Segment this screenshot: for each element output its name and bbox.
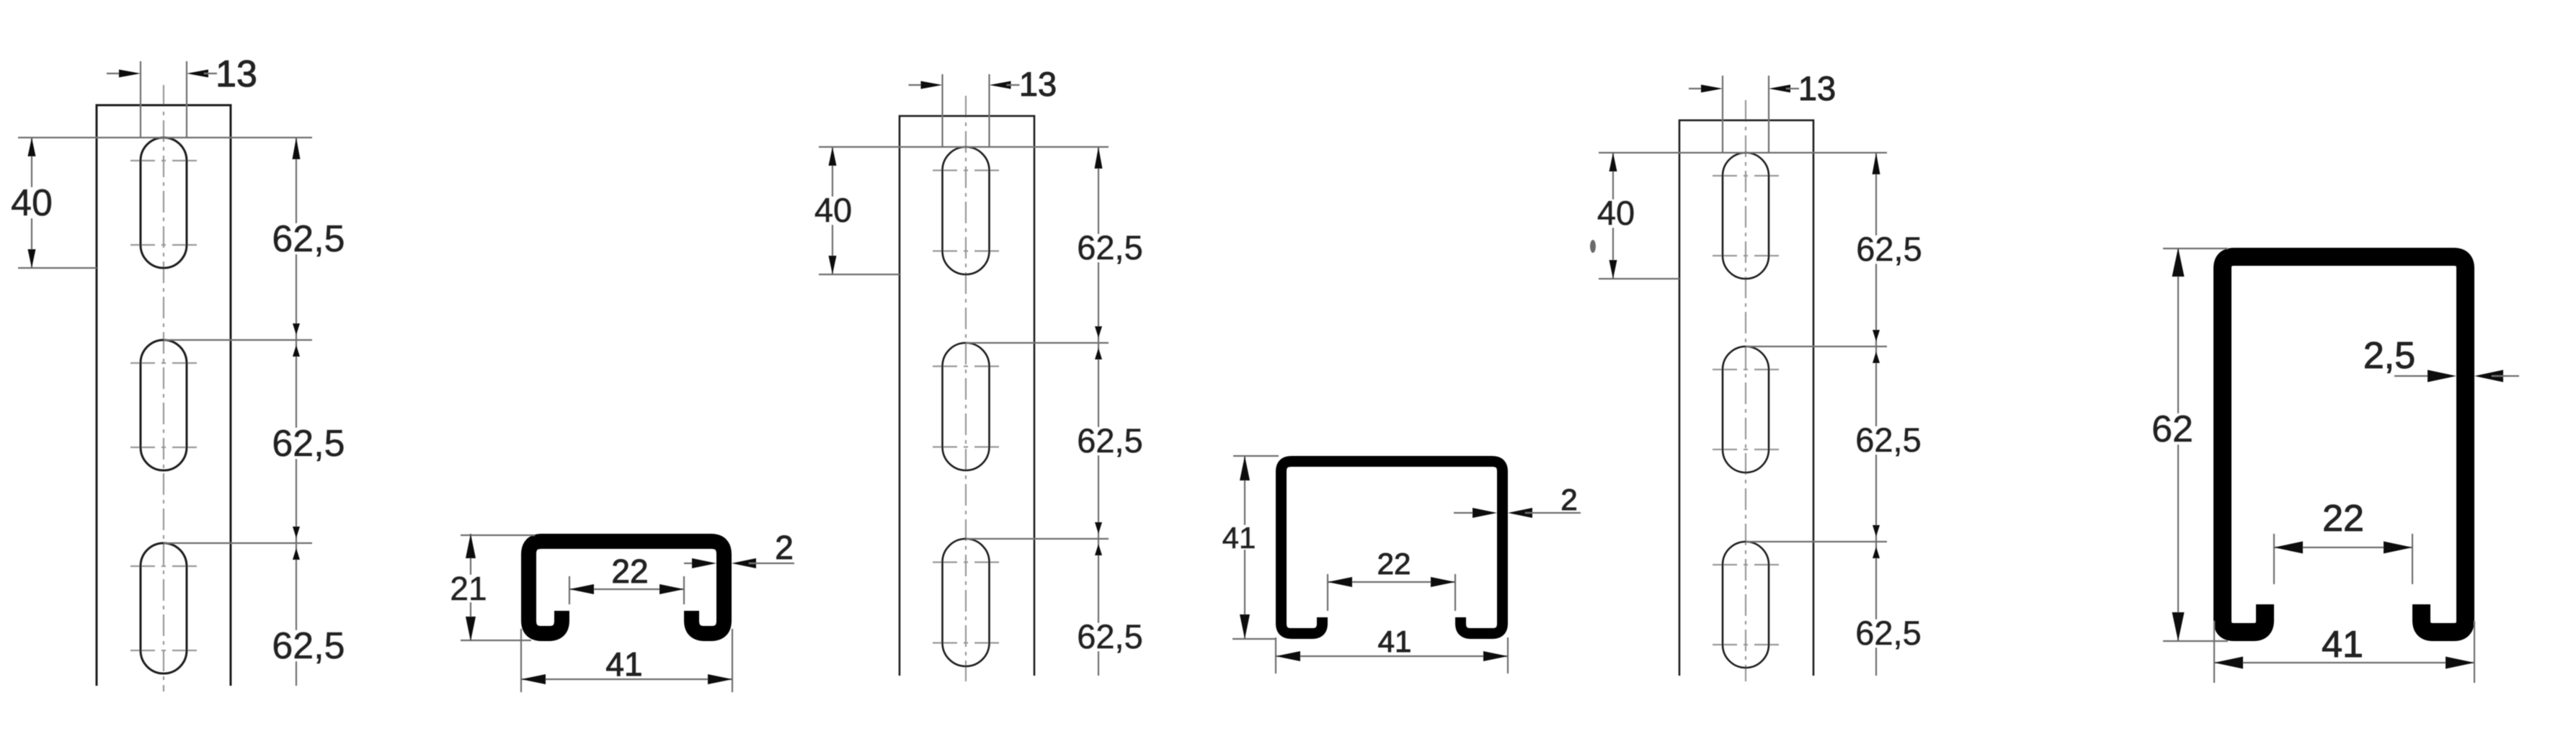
svg-text:41: 41	[605, 645, 642, 683]
svg-text:62: 62	[2151, 408, 2193, 450]
figure-5 dim 40: value label	[1594, 200, 1638, 228]
figure-2 channel profile body	[529, 542, 724, 634]
figure-3 dim 62,5: value labels	[1072, 234, 1148, 262]
figure-5 slot-top datum lines	[1599, 152, 1887, 153]
figure-1 dim 62,5: value labels	[267, 223, 351, 254]
figure-2 opening dim 22: extension lines	[569, 576, 570, 604]
svg-text:22: 22	[2322, 498, 2364, 540]
figure-6 overall height dim 62: extension lines	[2163, 248, 2228, 249]
svg-text:41: 41	[1222, 521, 1256, 555]
svg-text:13: 13	[1019, 65, 1057, 103]
figure-6 overall height dim 62: line and arrows	[2177, 248, 2179, 641]
svg-text:62,5: 62,5	[1077, 228, 1142, 267]
figure-1 dim 13: extension lines	[140, 61, 141, 138]
svg-text:13: 13	[216, 53, 257, 95]
svg-text:62,5: 62,5	[1855, 614, 1921, 652]
figure-6 overall width dim 41: extension lines	[2213, 621, 2215, 683]
svg-text:22: 22	[1377, 547, 1411, 581]
figure-3 slot hole centre ticks	[933, 169, 957, 171]
figure-4 opening dim 22: line and arrows	[1328, 581, 1455, 583]
figure-2 overall height dim 21: value label	[446, 575, 490, 602]
figure-3 dim 40: value label	[811, 197, 856, 225]
figure-3 slotted holes	[943, 147, 990, 274]
svg-text:62,5: 62,5	[272, 423, 345, 465]
figure-3 dim 13: extension lines	[941, 74, 943, 147]
svg-text:2,5: 2,5	[2363, 335, 2415, 377]
figure-4 overall width dim 41: line and arrows	[1276, 655, 1508, 657]
figure-1 dim 40: line and arrows	[31, 138, 32, 268]
figure-4 opening dim 22: extension lines	[1327, 574, 1328, 611]
svg-text:21: 21	[450, 570, 487, 607]
svg-text:13: 13	[1798, 69, 1836, 107]
stray ink speck	[1590, 240, 1596, 253]
figure-6 opening dim 22: line and arrows	[2274, 547, 2412, 548]
svg-text:41: 41	[2322, 624, 2363, 666]
figure-1 strut outline (open-bottom rectangle)	[97, 105, 231, 686]
figure-3 dim 62,5 chain: line and arrows	[1098, 147, 1099, 676]
svg-text:62,5: 62,5	[1855, 421, 1921, 459]
figure-3 centerline (vertical dash-dot)	[965, 96, 967, 681]
figure-1 slotted holes	[141, 138, 187, 268]
svg-text:62,5: 62,5	[272, 625, 345, 667]
figure-3 strut outline (open-bottom rectangle)	[900, 116, 1034, 676]
svg-text:62,5: 62,5	[1077, 617, 1142, 655]
svg-text:40: 40	[1597, 194, 1635, 232]
figure-4 overall height dim 41: extension lines	[1233, 455, 1279, 457]
figure-2 overall width dim 41: extension lines	[520, 629, 522, 692]
figure-1 centerline (vertical dash-dot)	[163, 85, 164, 691]
figure-6 wall thickness dim 2,5: arrows	[2394, 375, 2439, 377]
figure-4 wall thickness dim 2: arrows	[1454, 512, 1480, 514]
figure-2 overall width dim 41: line and arrows	[521, 679, 732, 680]
svg-text:40: 40	[814, 191, 852, 229]
figure-5 centerline (vertical dash-dot)	[1745, 100, 1746, 681]
svg-text:40: 40	[11, 182, 53, 224]
figure-5 dim 62,5 chain: line and arrows	[1875, 153, 1877, 676]
svg-text:62,5: 62,5	[1077, 421, 1142, 460]
svg-text:62,5: 62,5	[1856, 230, 1922, 268]
figure-2 opening dim 22: line and arrows	[569, 588, 684, 590]
figure-4 channel profile body	[1282, 462, 1503, 634]
figure-2 wall thickness dim 2: arrows	[684, 563, 699, 564]
figure-5 dim 40: line and arrows	[1612, 153, 1614, 279]
figure-4 overall width dim 41: extension lines	[1275, 637, 1276, 673]
svg-text:41: 41	[1378, 625, 1412, 658]
figure-6 opening dim 22: extension lines	[2273, 534, 2275, 584]
figure-6 channel profile body	[2223, 257, 2466, 632]
figure-4 overall height dim 41: line and arrows	[1244, 456, 1245, 639]
figure-2 overall height dim 21: extension lines	[461, 534, 535, 536]
svg-text:2: 2	[1560, 483, 1577, 516]
svg-text:2: 2	[775, 529, 794, 566]
figure-2 overall height dim 21: line and arrows	[470, 534, 471, 641]
figure-1 dim 62,5 chain: line and arrows	[296, 138, 297, 686]
figure-3 dim 40: line and arrows	[832, 147, 833, 274]
figure-6 overall height dim 62: value label	[2148, 413, 2197, 444]
figure-5 dim 62,5: value labels	[1851, 236, 1927, 264]
figure-4 overall height dim 41: value label	[1219, 525, 1259, 550]
figure-5 dim 13: extension lines	[1722, 76, 1723, 153]
figure-1 dim 40: value label	[7, 187, 56, 218]
figure-5 slotted holes	[1723, 153, 1769, 279]
figure-5 dim 13: arrows and shafts	[1689, 88, 1705, 89]
figure-5 slot hole centre ticks	[1713, 175, 1737, 176]
figure-1 slot-top datum lines	[18, 137, 312, 138]
figure-3 slot-top datum lines	[819, 146, 1109, 148]
svg-text:62,5: 62,5	[272, 218, 345, 260]
figure-5 strut outline (open-bottom rectangle)	[1679, 120, 1813, 676]
svg-text:22: 22	[611, 552, 648, 590]
figure-6 overall width dim 41: line and arrows	[2214, 662, 2474, 663]
figure-1 slot hole centre ticks	[130, 160, 155, 161]
figure-3 dim 13: arrows and shafts	[909, 84, 925, 86]
figure-1 dim 13: arrows and shafts	[107, 73, 123, 74]
